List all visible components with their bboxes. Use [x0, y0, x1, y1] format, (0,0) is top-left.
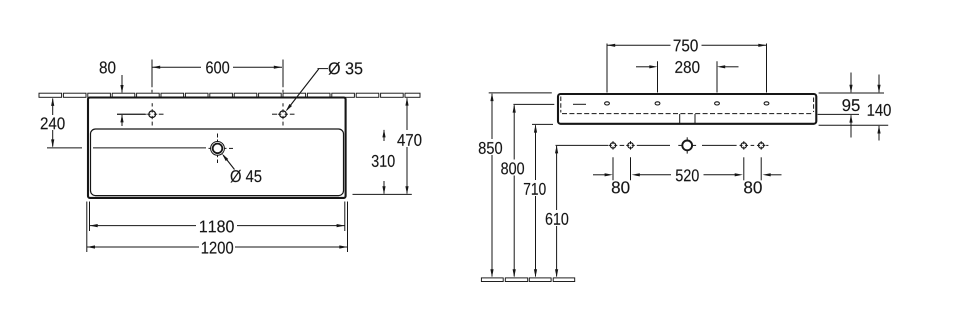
dimension 95 extension bottom [818, 113, 859, 115]
dimension 80 label [100, 61, 116, 73]
drain recess marks [679, 114, 681, 123]
dimension 95 extension top [819, 92, 884, 94]
tap hole right [280, 111, 287, 118]
overflow slot mark [573, 103, 586, 105]
dimension 1200 line [87, 246, 199, 248]
dimension 1180 label [200, 220, 234, 232]
dimension 520 line [632, 173, 640, 176]
dimension 850 line [491, 94, 493, 139]
dimension 610 label [545, 211, 570, 226]
dimension 80 leader lower [121, 115, 123, 126]
dimension 750 line [607, 44, 671, 46]
wall tile line (plan view) [39, 93, 62, 97]
dimension 750 extension lines [606, 44, 608, 93]
dimension 1200 label [202, 242, 233, 254]
label Ø 35 [329, 62, 363, 75]
label Ø 45 [231, 170, 262, 183]
dimension 710 extension [532, 123, 553, 125]
washbasin inner bowl outline [91, 129, 344, 196]
drain hole [211, 142, 225, 156]
dimension 710 line [535, 125, 537, 180]
dimension 850 label [478, 140, 504, 155]
dimension 80 left label [612, 181, 630, 193]
leader line Ø 45 [223, 155, 234, 169]
middle fixing hole [686, 137, 688, 153]
dimension 280 line [636, 66, 650, 68]
dimension 95 line [850, 73, 852, 93]
dimension 280 extension lines [657, 61, 659, 92]
dimension 140 extension bottom [819, 124, 889, 126]
dimension 310 label [371, 154, 397, 168]
dimension 310 line [383, 130, 385, 141]
dimension 800 extension [513, 103, 554, 105]
dimension 800 label [500, 161, 526, 176]
dimension 240 line [52, 99, 54, 116]
dimension 80 right line [770, 174, 781, 176]
dimension 80 left line [593, 174, 605, 176]
tap hole left centerlines [117, 113, 145, 115]
dimension 470 line [406, 98, 408, 130]
dimension 610 line [556, 146, 558, 210]
dimension 1180 line [90, 225, 197, 227]
dimension 710 label [523, 181, 548, 196]
dimension 240 extension [47, 147, 82, 149]
floor tile line (front view) [481, 278, 503, 282]
dimension 80 right label [744, 181, 762, 193]
dimension 600 extension line left [151, 60, 153, 88]
leader line Ø 35 [318, 68, 329, 70]
dimension 1200 extension lines [86, 202, 88, 253]
dimension 1180 extension lines [89, 202, 91, 232]
dimension 240 label [40, 117, 67, 131]
dimension 600 line [152, 66, 201, 68]
dimension 600 label [206, 61, 229, 73]
tap hole right centerlines [272, 113, 277, 115]
washbasin front outline [558, 94, 816, 124]
washbasin outer outline (plan view) [88, 98, 346, 198]
tap hole left [149, 111, 156, 118]
fixing holes centerline [556, 144, 609, 146]
dimension 95 label [841, 99, 861, 113]
drain hole centerlines [93, 147, 206, 149]
dimension 470 label [397, 133, 423, 147]
dimension 80 leader upper [121, 75, 123, 93]
dimension 850 extension [489, 92, 552, 94]
tap hole ovals (front view) [605, 102, 610, 105]
dimension 800 line [513, 105, 515, 159]
dimension 750 label [674, 39, 698, 51]
dimension 140 label [866, 103, 892, 117]
fixing holes (4 small) [610, 143, 616, 149]
dimension 140 line [878, 75, 880, 93]
dimension 310-470 bottom extension [353, 193, 412, 195]
dimension 520 label [676, 169, 699, 181]
hidden inner contour dashed [562, 113, 813, 115]
dimension 280 label [675, 61, 699, 73]
fixing hole extension lines [612, 157, 614, 180]
